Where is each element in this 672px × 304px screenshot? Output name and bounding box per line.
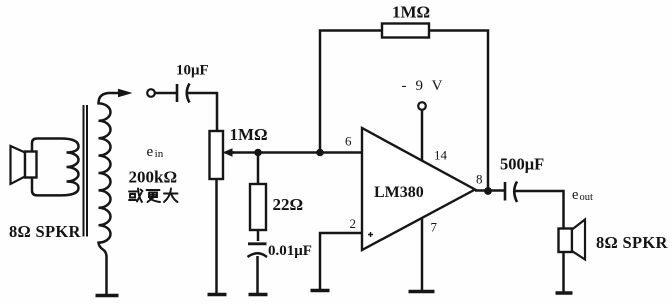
potentiometer wiper arrow: [229, 151, 234, 154]
speaker SPKR1 body: [25, 152, 37, 178]
power terminal circle -9V: [418, 102, 426, 110]
wire C1 to pot: [187, 93, 218, 131]
svg-text:14: 14: [434, 148, 448, 163]
transformer T1 primary winding: [32, 139, 79, 196]
op-amp noninverting mark: [368, 232, 373, 237]
wire speaker top stub: [32, 139, 61, 152]
wire pin6 line: [232, 151, 362, 154]
transformer T1 core: [84, 105, 88, 237]
svg-text:0.01μF: 0.01μF: [268, 243, 312, 259]
wire pin7 to ground: [421, 218, 424, 292]
wire R2 to C2: [257, 230, 260, 241]
potentiometer R1 1M body: [210, 131, 224, 179]
svg-text:10μF: 10μF: [176, 63, 209, 79]
speaker SPKR2 body: [559, 229, 573, 253]
node output junction dot: [484, 187, 492, 195]
wire 22 ohm top lead: [257, 153, 260, 185]
capacitor C1 10uF: [176, 84, 179, 102]
svg-text:1MΩ: 1MΩ: [230, 125, 268, 144]
wire pin14 supply: [421, 110, 424, 161]
wire speaker2 to ground: [562, 252, 565, 293]
svg-text:200kΩ: 200kΩ: [129, 168, 178, 187]
arrow on secondary lead: [110, 92, 119, 95]
resistor R3 1M feedback body: [382, 24, 429, 38]
capacitor C2 0.01uF: [248, 242, 267, 245]
svg-text:- 9 V: - 9 V: [402, 78, 446, 94]
svg-text:7: 7: [431, 220, 438, 235]
svg-text:1MΩ: 1MΩ: [392, 3, 430, 22]
wire C2 to ground: [256, 256, 259, 294]
wire C3 to speaker: [514, 191, 564, 229]
svg-text:8Ω SPKR: 8Ω SPKR: [9, 222, 81, 241]
ground speaker2: [556, 291, 573, 295]
ground pot: [208, 293, 227, 297]
ground pin2: [311, 289, 330, 293]
svg-text:22Ω: 22Ω: [273, 195, 304, 214]
ground C2: [249, 293, 268, 297]
speaker SPKR1 horn: [11, 146, 26, 184]
resistor R2 22 ohm body: [250, 184, 266, 230]
svg-text:8: 8: [476, 172, 483, 187]
svg-text:6: 6: [345, 134, 352, 149]
wire feedback right vertical: [429, 31, 488, 192]
ground pin7: [409, 290, 435, 294]
op-amp U1 LM380 triangle: [362, 128, 475, 250]
node B junction dot: [316, 149, 324, 157]
wire feedback left vertical: [320, 31, 382, 153]
wire output apex to C3: [475, 189, 504, 192]
speaker SPKR2 horn: [572, 220, 585, 260]
transformer T1 secondary winding: [99, 93, 111, 295]
svg-text:LM380: LM380: [374, 184, 424, 201]
svg-text:2: 2: [350, 216, 357, 231]
wire pin2: [320, 233, 362, 290]
svg-text:8Ω SPKR: 8Ω SPKR: [596, 233, 668, 252]
input terminal circle: [147, 89, 155, 97]
wire pot bottom to ground: [215, 179, 218, 294]
svg-text:500μF: 500μF: [500, 155, 544, 174]
ground secondary: [96, 294, 119, 298]
capacitor C3 500uF: [504, 182, 507, 201]
wire terminal to C1: [155, 92, 176, 95]
node A junction dot: [254, 149, 262, 157]
label chinese or-larger (drawn strokes): [129, 189, 178, 203]
